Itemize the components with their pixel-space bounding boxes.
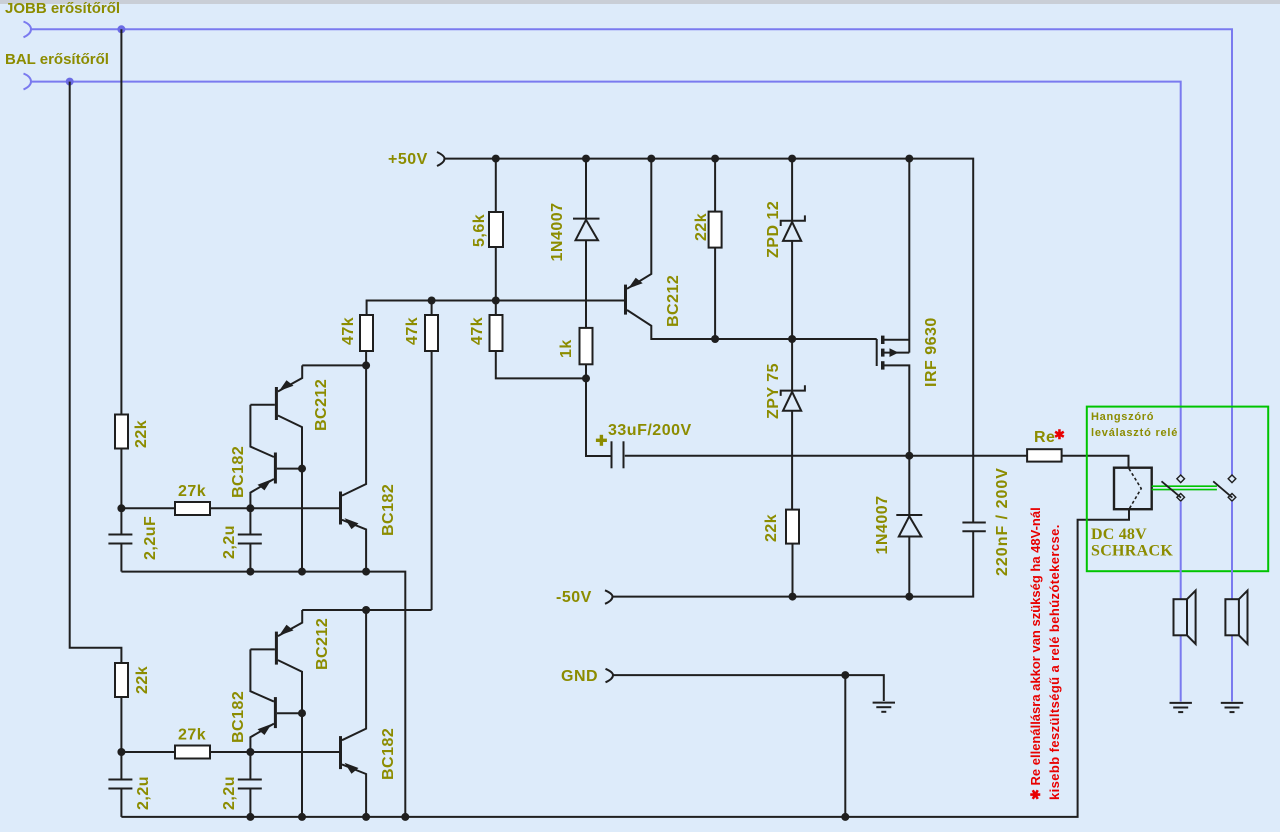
junction 1k / 47k#3 node [582,374,590,382]
junction +50V/5,6k [492,155,500,163]
connector BAL input [24,74,32,90]
svg-text:33uF/200V: 33uF/200V [608,422,692,439]
transistor Q3B BC182 (NPN) channel B [339,610,397,817]
node BAL input label [5,51,109,68]
svg-text:22k: 22k [693,213,710,241]
node JOBB input label [5,0,120,17]
resistor 22k (ZPY75 to -50V) [763,510,799,597]
junction JOBB tap [117,25,125,33]
capacitor 220nF / 200V [962,467,1011,576]
wire Q1A emitter to 47k#1 [302,364,366,366]
svg-text:ZPY 75: ZPY 75 [765,363,782,419]
wire -50V rail [613,532,974,597]
wire JOBB input (blue, to right switch) [31,29,1232,474]
svg-text:BAL erősítőről: BAL erősítőről [5,51,109,68]
resistor 22k channel A input [115,415,150,509]
svg-text:47k: 47k [340,317,357,345]
note red footnote line 2 [1047,524,1062,800]
svg-text:✱: ✱ [1054,427,1065,442]
node -50V label [556,589,592,606]
resistor 5,6k [471,159,503,301]
speaker left [1174,591,1196,644]
resistor 47k #3 [469,301,586,379]
wire bottom rail (signal ground) [121,510,1129,817]
svg-text:Re: Re [1034,429,1055,446]
junction +50V/22k [711,155,719,163]
speaker right [1225,591,1247,644]
svg-text:27k: 27k [178,483,206,500]
junction 47k#3 / 5,6k [492,297,500,305]
junction -50V/1N4007#2 [905,593,913,601]
transistor Q2A BC182 (NPN mirrored) channel A [230,405,302,509]
wire GND [613,675,884,701]
svg-text:1k: 1k [558,339,575,358]
relay coil K1 [1114,468,1152,510]
svg-text:22k: 22k [134,666,151,694]
junction bottom rail channel A return [401,813,409,821]
label Hangszóró leválasztó relé [1091,411,1178,439]
junction 27k/cap/emitter channel A [246,504,254,512]
svg-text:-50V: -50V [556,589,592,606]
svg-text:27k: 27k [178,727,206,744]
resistor 1k [558,328,593,379]
svg-text:1N4007: 1N4007 [549,202,566,261]
diode 1N4007 #1 [549,159,600,328]
resistor 27k channel B [175,727,210,759]
transistor Q3A BC182 (NPN) channel A [339,365,397,571]
junction bottom rail Q3B emitter [362,813,370,821]
svg-text:BC182: BC182 [380,484,397,536]
svg-text:JOBB erősítőről: JOBB erősítőről [5,0,120,17]
junction zener string / gate rail [788,335,796,343]
junction output / IRF9630 drain / 1N4007#2 [905,452,913,460]
wire BAL input (blue, to left switch) [31,82,1181,475]
wire JOBB to speaker 2 (blue) [1231,502,1233,702]
capacitor 33uF/200V [596,422,692,468]
connector JOBB input [24,22,32,38]
wire channel B base line [121,751,339,753]
junction BAL tap [66,78,74,86]
wire channel A base line [121,507,339,509]
transistor Q1A BC212 (PNP) channel A [250,365,330,571]
ground symbol speaker left [1170,703,1192,712]
note red footnote line 1 [1028,507,1043,800]
wire output node (33uF to relay) [625,456,1129,468]
wire GND drop to bottom rail [844,675,846,817]
capacitor 2,2uF channel A [108,508,159,571]
svg-text:1N4007: 1N4007 [874,495,891,554]
junction -50V/22k [789,593,797,601]
svg-text:2,2u: 2,2u [221,525,238,559]
resistor 47k #2 [404,301,438,611]
junction Q1A collector on rail [298,568,306,576]
resistor 27k channel A [175,483,210,515]
junction +50V/Q4 emitter [647,155,655,163]
connector GND [606,669,614,683]
label DC 48V SCHRACK [1091,526,1173,560]
wire JOBB tap to channel-A 22k [120,29,122,414]
svg-text:BC182: BC182 [230,446,247,498]
svg-text:SCHRACK: SCHRACK [1091,543,1173,560]
svg-text:22k: 22k [133,420,150,448]
transistor Q2B BC182 (NPN mirrored) channel B [230,649,302,752]
junction Q3A emitter on rail [362,568,370,576]
junction +50V/IRF9630 source [905,155,913,163]
capacitor 2,2u channel B left [108,752,152,817]
zener ZPY 75 [765,339,805,510]
svg-text:Hangszóró: Hangszóró [1091,411,1154,423]
svg-text:DC 48V: DC 48V [1091,526,1147,543]
svg-text:BC212: BC212 [314,618,331,670]
node +50V label [388,151,428,168]
transistor Q4 BC212 driver (PNP) [624,159,877,339]
ground symbol speaker right [1221,703,1243,712]
junction 22k bottom / gate rail [711,335,719,343]
junction 47k#1 / Q3A collector [362,361,370,369]
resistor 22k channel B input [115,663,151,752]
svg-text:47k: 47k [404,317,421,345]
junction Q1B collector / Q2B base [298,709,306,717]
svg-text:2,2u: 2,2u [135,776,152,810]
svg-text:BC212: BC212 [313,379,330,431]
junction GND to bottom rail [841,671,849,679]
svg-text:BC182: BC182 [380,728,397,780]
svg-text:BC212: BC212 [665,275,682,327]
transistor Q1B BC212 (PNP) channel B [250,610,331,817]
svg-text:47k: 47k [469,317,486,345]
junction bottom rail GND [841,813,849,821]
svg-text:BC182: BC182 [230,691,247,743]
wire 1k node to 33uF [586,378,611,456]
switch contact left (BAL) [1162,475,1185,501]
resistor 47k #1 [340,315,373,365]
svg-text:2,2u: 2,2u [221,776,238,810]
svg-text:GND: GND [561,668,598,685]
junction Q1A collector / Q2A base [298,465,306,473]
resistor Re [1027,429,1062,462]
junction Q3B collector on emitter line [362,606,370,614]
svg-text:5,6k: 5,6k [471,214,488,247]
svg-text:220nF / 200V: 220nF / 200V [994,467,1011,576]
junction +50V/ZPD12 [788,155,796,163]
zener ZPD 12 [765,159,805,339]
svg-text:IRF 9630: IRF 9630 [923,317,940,387]
junction 22k/27k/cap channel A [117,504,125,512]
wire relay linkage (green) [1152,486,1217,489]
svg-text:22k: 22k [763,514,780,542]
junction +50V/1N4007 [582,155,590,163]
node GND label [561,668,598,685]
wire channel A lower rail [121,572,405,817]
wire BAL tap to channel-B 22k [70,82,122,663]
wire BAL to speaker 1 (blue) [1180,502,1182,702]
capacitor 2,2u channel A [221,508,262,571]
svg-text:✱ Re ellenállásra akkor van sz: ✱ Re ellenállásra akkor van szükség ha 4… [1028,507,1043,800]
junction bottom rail Q1B collector [298,813,306,821]
label red asterisk at Re [1054,427,1065,442]
ground symbol main [873,703,895,712]
svg-text:leválasztó relé: leválasztó relé [1091,427,1178,439]
connector +50V [437,152,445,166]
diode 1N4007 #2 [874,456,922,597]
junction cap A2 on rail [246,568,254,576]
switch contact right (JOBB) [1213,475,1236,501]
junction bottom rail cap B2 [246,813,254,821]
box relay group (green) [1087,407,1268,572]
svg-text:ZPD 12: ZPD 12 [765,201,782,258]
mosfet Q5 IRF9630 (P-channel) [877,159,940,456]
wire +50V rail [445,159,974,522]
wire Q1B emitter line to 47k#2 drop [302,609,431,611]
wire 47k top rail (Q4 base line) [367,301,624,316]
junction 22k/27k/cap channel B [117,748,125,756]
connector -50V [605,590,613,604]
resistor 22k (+50V to gate rail) [693,159,722,339]
svg-text:2,2uF: 2,2uF [142,516,159,560]
junction 47k#2 top [428,297,436,305]
junction 27k/cap/emitter channel B [246,748,254,756]
svg-text:+50V: +50V [388,151,428,168]
capacitor 2,2u channel B right [221,752,262,817]
svg-text:kisebb feszültségű a relé behú: kisebb feszültségű a relé behúzótekercse… [1047,524,1062,800]
